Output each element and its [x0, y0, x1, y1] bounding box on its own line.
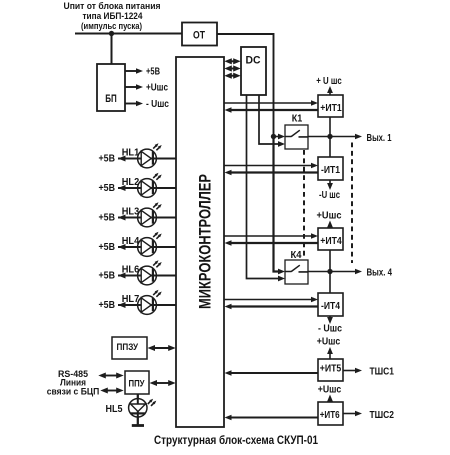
svg-text:+ИТ6: +ИТ6 — [320, 410, 340, 421]
svg-text:HL2: HL2 — [122, 177, 140, 188]
svg-text:HL1: HL1 — [122, 147, 140, 158]
wire: ОТ output to K1/K4 feed column — [217, 34, 274, 137]
svg-text:+5В: +5В — [99, 183, 116, 194]
wire: +ИТ5 to МК — [225, 370, 319, 376]
wire: K1 output to Вых.1 — [308, 134, 362, 140]
block +ИТ4 — [318, 228, 343, 250]
svg-text:Структурная блок-схема СКУП-01: Структурная блок-схема СКУП-01 — [154, 435, 319, 447]
bus: МК - DC bidirectional line 2 — [224, 65, 240, 71]
junction: Вых.4 node — [327, 269, 332, 274]
svg-text:+ИТ4: +ИТ4 — [320, 236, 342, 247]
svg-text:Вых. 4: Вых. 4 — [367, 268, 393, 279]
svg-text:ТШС1: ТШС1 — [370, 367, 395, 378]
svg-text:+5В: +5В — [99, 271, 116, 282]
LED HL6 — [118, 260, 176, 285]
svg-text:HL7: HL7 — [122, 294, 140, 305]
svg-text:+5В: +5В — [99, 154, 116, 165]
wire: node to K1 input — [274, 134, 286, 140]
bus: ППЗУ - МК bidirectional — [148, 345, 176, 351]
block МИКРОКОНТРОЛЛЕР U1 — [176, 57, 224, 427]
block -ИТ1 — [318, 157, 343, 180]
wire: Uпит node down to БП — [111, 34, 113, 65]
wire: БП output +Uшс — [125, 84, 143, 90]
dashed: omitted channels right — [351, 143, 353, 264]
junction: Вых.1 node — [327, 134, 332, 139]
wire: -ИТ1 down to -Uшс — [327, 180, 333, 190]
svg-text:+5В: +5В — [99, 213, 116, 224]
bus: RS-485 lower bidirectional arrow — [100, 388, 123, 394]
wire: МК to HL6 / +5В — [118, 273, 176, 279]
wire: +ИТ1 / -ИТ1 to Вых.1 node — [329, 117, 331, 157]
wire: +ИТ5 to ТШС1 — [343, 368, 362, 374]
svg-text:+Uшс: +Uшс — [317, 337, 341, 348]
bus: МК - DC bidirectional line 1 — [224, 58, 240, 64]
wire: МК to HL3 / +5В — [118, 215, 176, 221]
wire: +ИТ5 up to +Uшс — [327, 347, 333, 359]
LED HL3 — [118, 202, 176, 227]
block +ИТ1 — [318, 95, 343, 117]
wire: -ИТ4 down to -Uшс — [327, 316, 333, 324]
bus: RS-485 upper bidirectional arrow — [98, 373, 123, 379]
svg-text:+5В: +5В — [99, 242, 116, 253]
wire: МК to -ИТ4 — [224, 297, 318, 303]
label: RS-485 Линия связи с БЦП — [47, 369, 100, 398]
wire: МК to -ИТ1 — [224, 163, 318, 169]
wire: node down to K4 input — [274, 137, 286, 275]
bus: ППУ - МК bidirectional — [150, 380, 176, 386]
dashed: omitted channels left — [303, 150, 305, 256]
relay contact K1 — [285, 125, 308, 149]
LED HL7 — [118, 290, 176, 315]
wire: +ИТ4 to МК — [225, 240, 319, 246]
wire: K4 output to Вых.4 — [308, 269, 362, 275]
block -ИТ4 — [318, 293, 343, 316]
bus: МК - DC bidirectional line 3 — [224, 73, 240, 79]
svg-text:ППУ: ППУ — [129, 379, 145, 390]
svg-text:+Uшс: +Uшс — [146, 83, 168, 94]
wire: БП output +5В — [125, 68, 143, 74]
svg-text:+5В: +5В — [146, 67, 160, 78]
LED HL2 — [118, 173, 176, 198]
svg-text:+Uшс: +Uшс — [318, 384, 342, 395]
svg-text:-ИТ4: -ИТ4 — [321, 301, 340, 312]
svg-text:- Uшс: - Uшс — [146, 99, 169, 110]
wire: МК to HL4 / +5В — [118, 244, 176, 250]
wire: Uпит supply line to ОТ — [75, 33, 182, 35]
svg-text:HL6: HL6 — [122, 264, 140, 275]
wire: БП output -Uшс — [125, 101, 143, 107]
svg-text:+ U шс: + U шс — [316, 76, 342, 87]
svg-text:HL4: HL4 — [122, 236, 140, 247]
svg-text:-ИТ1: -ИТ1 — [321, 165, 340, 176]
svg-text:+ИТ1: +ИТ1 — [320, 103, 342, 114]
wire: МК to +ИТ4 — [224, 233, 318, 239]
wire: +ИТ4 / -ИТ4 to Вых.4 node — [329, 250, 331, 293]
svg-text:К4: К4 — [291, 250, 302, 261]
wire: МК to HL1 / +5В — [118, 156, 176, 162]
wire: +ИТ6 up to +Uшс — [327, 395, 333, 403]
wire: DC left output down to K4 lower input — [247, 95, 286, 281]
svg-text:HL5: HL5 — [106, 404, 123, 415]
wire: +ИТ4 up to +Uшс — [327, 221, 333, 229]
LED HL4 — [118, 232, 176, 257]
LED HL1 — [118, 143, 176, 168]
svg-text:-U шс: -U шс — [319, 190, 340, 201]
svg-text:К1: К1 — [292, 114, 303, 125]
svg-text:Вых. 1: Вых. 1 — [367, 133, 392, 144]
junction: Uпит node — [109, 31, 114, 36]
block ППУ — [125, 371, 149, 394]
wire: DC right output down to K1 lower input — [259, 95, 285, 147]
block +ИТ5 — [318, 359, 343, 381]
wire: +ИТ1 up to +Uшс — [327, 86, 333, 95]
relay contact K4 — [285, 260, 308, 284]
wire: МК to +ИТ1 — [224, 100, 318, 106]
svg-text:ОТ: ОТ — [193, 30, 205, 42]
wire: -ИТ4 to МК — [225, 304, 319, 310]
block DC — [241, 47, 266, 95]
svg-text:+ИТ5: +ИТ5 — [320, 364, 342, 375]
wire: +ИТ6 to ТШС2 — [343, 411, 362, 417]
LED HL5 — [129, 394, 157, 426]
wire: МК to HL7 / +5В — [118, 302, 176, 308]
label: Uпит от блока питания типа ИБП-1224 (импульс пуска) — [64, 1, 161, 32]
ground — [132, 424, 144, 427]
block ППЗУ — [112, 337, 147, 359]
wire: +ИТ6 to МК — [225, 415, 319, 421]
block ОТ — [182, 23, 217, 46]
svg-text:БП: БП — [105, 93, 117, 105]
svg-text:ТШС2: ТШС2 — [370, 410, 395, 421]
wire: МК to HL2 / +5В — [118, 185, 176, 191]
block +ИТ6 — [318, 402, 343, 425]
svg-text:МИКРОКОНТРОЛЛЕР: МИКРОКОНТРОЛЛЕР — [196, 174, 215, 309]
junction: K1 feed node — [271, 134, 276, 139]
wire: +ИТ1 to МК — [225, 107, 319, 113]
wire: -ИТ1 to МК — [225, 170, 319, 176]
svg-text:+5В: +5В — [99, 300, 116, 311]
block БП — [97, 64, 125, 111]
svg-text:+Uшс: +Uшс — [317, 211, 342, 222]
svg-text:DC: DC — [246, 55, 261, 67]
svg-text:(импульс пуска): (импульс пуска) — [81, 21, 142, 32]
svg-text:связи с БЦП: связи с БЦП — [47, 387, 100, 398]
svg-text:- Uшс: - Uшс — [318, 324, 342, 335]
wire: ППУ down through HL5 to ground — [137, 394, 139, 426]
svg-text:ППЗУ: ППЗУ — [117, 342, 139, 353]
svg-text:HL3: HL3 — [122, 206, 140, 217]
